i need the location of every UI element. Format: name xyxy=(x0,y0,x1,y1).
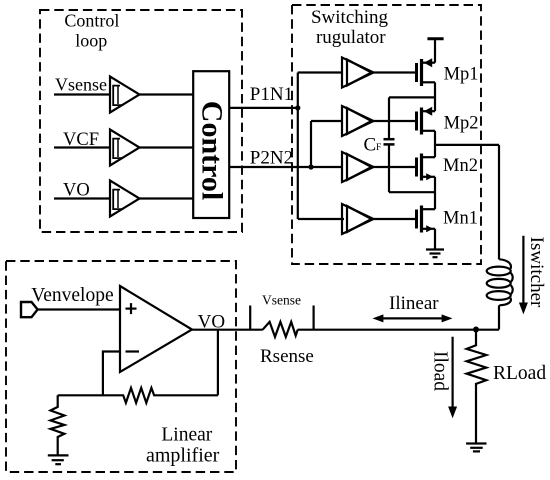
schmitt buffer B3 xyxy=(110,181,140,217)
Ilinear arrow xyxy=(373,314,453,322)
port Venvelope xyxy=(21,302,38,317)
wire Venvelope to op-amp xyxy=(38,308,120,310)
resistor Rsense xyxy=(263,322,298,337)
svg-text:Venvelope: Venvelope xyxy=(31,285,113,306)
wire to driver D4 xyxy=(298,218,344,220)
wire VCF input xyxy=(54,146,110,148)
resistor R2 feedback xyxy=(58,388,218,403)
switching regulator dashed box xyxy=(292,5,481,264)
wire B1 to control xyxy=(140,93,194,95)
inductor L1 xyxy=(487,259,513,305)
wire D1 to Mp1 gate xyxy=(374,71,417,73)
wire output node to right xyxy=(435,144,499,146)
wire inverting input xyxy=(103,352,120,396)
Iswitcher arrow xyxy=(519,236,528,315)
op-amp U2 xyxy=(120,286,192,372)
svg-text:F: F xyxy=(376,143,381,153)
wire Mn2 source to Mn1 drain xyxy=(434,177,436,209)
transistor Mn1 xyxy=(417,206,436,233)
svg-text:Mn1: Mn1 xyxy=(443,209,478,229)
wire D4 to Mn1 gate xyxy=(374,218,417,220)
wire output rail left xyxy=(192,329,263,331)
svg-text:Iswitcher: Iswitcher xyxy=(526,237,547,308)
svg-text:P1N1: P1N1 xyxy=(250,84,293,105)
svg-text:C: C xyxy=(364,135,377,156)
wire P1N1 branch vertical xyxy=(297,73,299,220)
transistor Mp1 xyxy=(417,58,436,86)
wire Mn1 source to ground xyxy=(434,229,436,250)
transistor Mp2 xyxy=(417,107,436,135)
svg-text:Switching: Switching xyxy=(311,7,389,28)
wire to driver D2 xyxy=(311,120,342,122)
control loop dashed box xyxy=(40,10,242,232)
control block U1 xyxy=(193,71,229,218)
driver D4 xyxy=(342,204,374,234)
svg-text:Mp1: Mp1 xyxy=(444,64,479,84)
resistor RLoad xyxy=(467,330,487,444)
sense tick left xyxy=(249,306,251,330)
svg-text:Mp2: Mp2 xyxy=(444,114,479,134)
wire CF top tap xyxy=(389,96,435,98)
schmitt buffer B2 xyxy=(110,130,140,166)
wire P2N2 branch vertical xyxy=(310,121,312,167)
wire CF bottom tap xyxy=(389,191,435,193)
wire output rail right xyxy=(298,329,500,331)
svg-text:Linear: Linear xyxy=(161,425,212,446)
wire VDD to Mp1 source xyxy=(434,39,436,63)
schmitt buffer B1 xyxy=(110,77,140,113)
wire B3 to control xyxy=(140,197,194,199)
linear amplifier dashed box xyxy=(6,261,236,472)
svg-text:loop: loop xyxy=(75,31,107,51)
capacitor CF xyxy=(384,97,395,192)
wire to driver D3 xyxy=(311,166,342,168)
svg-text:amplifier: amplifier xyxy=(146,444,220,466)
ground G3 xyxy=(466,444,486,452)
svg-text:Mn2: Mn2 xyxy=(443,156,478,176)
svg-text:VCF: VCF xyxy=(63,130,99,150)
wire Mp1 drain to Mp2 source xyxy=(434,82,436,111)
wire output to inductor xyxy=(498,145,500,260)
svg-text:rugulator: rugulator xyxy=(316,27,386,48)
svg-text:P2N2: P2N2 xyxy=(250,148,293,169)
ground G1 xyxy=(426,250,444,258)
svg-text:VO: VO xyxy=(63,181,90,201)
svg-text:RLoad: RLoad xyxy=(493,363,546,384)
wire B2 to control xyxy=(140,146,194,148)
driver D3 xyxy=(342,152,374,182)
node P2N2 junction xyxy=(308,164,313,169)
svg-text:Ilinear: Ilinear xyxy=(389,293,439,314)
wire VO input xyxy=(54,197,110,199)
VDD rail xyxy=(427,37,443,40)
wire P2N2 xyxy=(229,166,311,168)
wire to driver D1 xyxy=(298,71,342,73)
wire D2 to Mp2 gate xyxy=(374,120,417,122)
Iload arrow xyxy=(448,337,457,419)
wire D3 to Mn2 gate xyxy=(374,166,417,168)
resistor R1 to ground xyxy=(51,395,65,455)
transistor Mn2 xyxy=(417,154,436,181)
svg-text:Control: Control xyxy=(64,11,119,31)
svg-text:Vsense: Vsense xyxy=(262,293,301,308)
wire P1N1 xyxy=(229,107,298,109)
driver D2 xyxy=(342,106,374,136)
wire Vsense input xyxy=(54,93,110,95)
sense tick right xyxy=(313,306,315,330)
wire Mp2 drain to Mn2 drain xyxy=(434,131,436,157)
wire inductor to rail xyxy=(498,305,500,329)
wire feedback vertical xyxy=(217,330,219,396)
node P1N1 junction xyxy=(295,105,300,110)
svg-text:Vsense: Vsense xyxy=(55,75,107,95)
svg-text:VO: VO xyxy=(198,312,225,333)
svg-text:Rsense: Rsense xyxy=(260,346,314,367)
svg-text:Control: Control xyxy=(196,101,229,200)
ground G2 xyxy=(48,455,69,464)
svg-text:Iload: Iload xyxy=(430,351,451,391)
node load junction xyxy=(473,327,479,333)
driver D1 xyxy=(342,58,374,88)
